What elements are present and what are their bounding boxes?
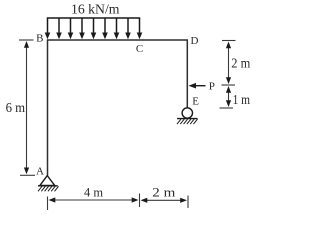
svg-text:A: A	[36, 166, 44, 178]
svg-text:2 m: 2 m	[152, 186, 175, 200]
svg-text:C: C	[136, 43, 143, 55]
svg-text:16 kN/m: 16 kN/m	[71, 2, 120, 17]
svg-text:6 m: 6 m	[6, 101, 26, 116]
svg-text:2 m: 2 m	[231, 56, 250, 71]
svg-text:B: B	[36, 33, 43, 45]
svg-text:4 m: 4 m	[84, 186, 103, 200]
svg-text:P: P	[209, 81, 215, 93]
svg-text:D: D	[191, 35, 199, 47]
svg-text:E: E	[192, 96, 199, 108]
svg-text:1 m: 1 m	[233, 92, 251, 107]
